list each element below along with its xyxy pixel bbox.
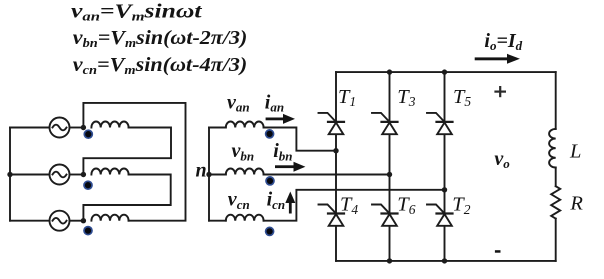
thyristor T6 [372, 205, 398, 226]
wire neutral bus of wye source [9, 128, 11, 221]
svg-text:L: L [569, 140, 581, 162]
junction phase c primary [81, 218, 86, 223]
wire n to winding bn [209, 174, 226, 176]
current arrow i_o [475, 54, 520, 64]
inductor secondary winding an [226, 121, 264, 127]
node n bus [208, 128, 210, 221]
wire winding b to phase c (delta) [83, 175, 170, 221]
svg-text:vcn=Vmsin(ωt-4π/3): vcn=Vmsin(ωt-4π/3) [73, 54, 247, 77]
junction phase a primary [81, 125, 86, 130]
junction phase a on leg 1 [333, 148, 338, 153]
thyristor T2 [427, 205, 453, 226]
wire bridge leg 3 [444, 72, 446, 261]
thyristor T3 [372, 113, 398, 134]
junction leg2 top rail [387, 69, 392, 74]
svg-text:R: R [569, 193, 583, 215]
wire source Vc to winding c [70, 220, 84, 222]
inductor primary winding a [91, 121, 128, 127]
wire negative dc rail [336, 260, 556, 262]
junction leg2 bottom rail [387, 258, 392, 263]
junction on source bus [7, 172, 12, 177]
wire winding an to bridge leg 1 [264, 128, 336, 151]
wire n to winding cn [209, 220, 226, 222]
junction phase c on leg 3 [442, 187, 447, 192]
thyristor T5 [427, 113, 453, 134]
thyristor T1 [319, 113, 345, 134]
label + (positive terminal) [494, 86, 506, 97]
svg-text:n: n [196, 160, 207, 182]
resistor R (load) [551, 186, 560, 218]
junction node n [206, 172, 211, 177]
wire winding cn to bridge leg 3 [264, 190, 445, 221]
wire winding bn to bridge leg 2 [264, 174, 390, 176]
wire positive dc rail [336, 71, 556, 73]
junction phase b primary [81, 172, 86, 177]
wire source Va to winding a [70, 127, 84, 129]
wire bus to source Vb [10, 174, 50, 176]
wire winding c to phase a (delta outer loop) [83, 103, 185, 221]
label - (negative terminal) [495, 250, 501, 253]
inductor secondary winding cn [226, 215, 264, 221]
ac source Vb [50, 165, 70, 185]
junction leg3 top rail [442, 69, 447, 74]
inductor primary winding b [91, 169, 128, 175]
inductor primary winding c [91, 215, 128, 221]
polarity dot primary winding b [84, 181, 92, 189]
wire bus to source Vc [10, 220, 50, 222]
junction leg3 bottom rail [442, 258, 447, 263]
polarity dot primary winding c [84, 227, 92, 235]
wire bridge leg 1 [335, 72, 337, 261]
ac source Vc [50, 211, 70, 231]
ac source Va [50, 118, 70, 138]
current arrow i_cn [285, 192, 295, 214]
wire load top [555, 72, 557, 129]
wire load bottom [555, 219, 557, 261]
polarity dot winding bn [266, 177, 274, 185]
inductor L (filter) [549, 129, 556, 168]
wire between L and R [555, 168, 557, 187]
wire source Vb to winding b [70, 174, 84, 176]
wire n to winding an [209, 127, 226, 129]
current arrow i_bn [275, 162, 305, 172]
thyristor T4 [319, 205, 345, 226]
polarity dot winding cn [266, 227, 274, 235]
polarity dot primary winding a [84, 130, 92, 138]
inductor secondary winding bn [226, 168, 264, 174]
svg-text:vbn=Vmsin(ωt-2π/3): vbn=Vmsin(ωt-2π/3) [73, 27, 248, 50]
current arrow i_an [266, 114, 295, 124]
wire bridge leg 2 [389, 72, 391, 261]
wire winding a to phase b (delta) [83, 128, 171, 175]
wire bus to source Va [10, 127, 50, 129]
junction phase b on leg 2 [387, 172, 392, 177]
polarity dot winding an [266, 130, 274, 138]
